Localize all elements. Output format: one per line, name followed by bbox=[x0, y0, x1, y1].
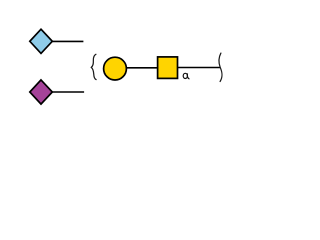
left repeat bracket { bbox=[91, 54, 96, 79]
wire bond circle-square bbox=[125, 67, 158, 69]
right repeat bracket bbox=[219, 53, 222, 81]
node purple diamond (fragment 2) bbox=[30, 80, 53, 104]
label alpha anomeric bbox=[183, 73, 189, 78]
node blue diamond (fragment 1) bbox=[30, 29, 53, 53]
node yellow circle (Gal) bbox=[104, 57, 127, 80]
wire bond square-right bbox=[177, 67, 220, 69]
node yellow square (GalNAc) bbox=[158, 57, 178, 79]
wire bbox=[51, 91, 84, 93]
wire bbox=[52, 40, 84, 42]
